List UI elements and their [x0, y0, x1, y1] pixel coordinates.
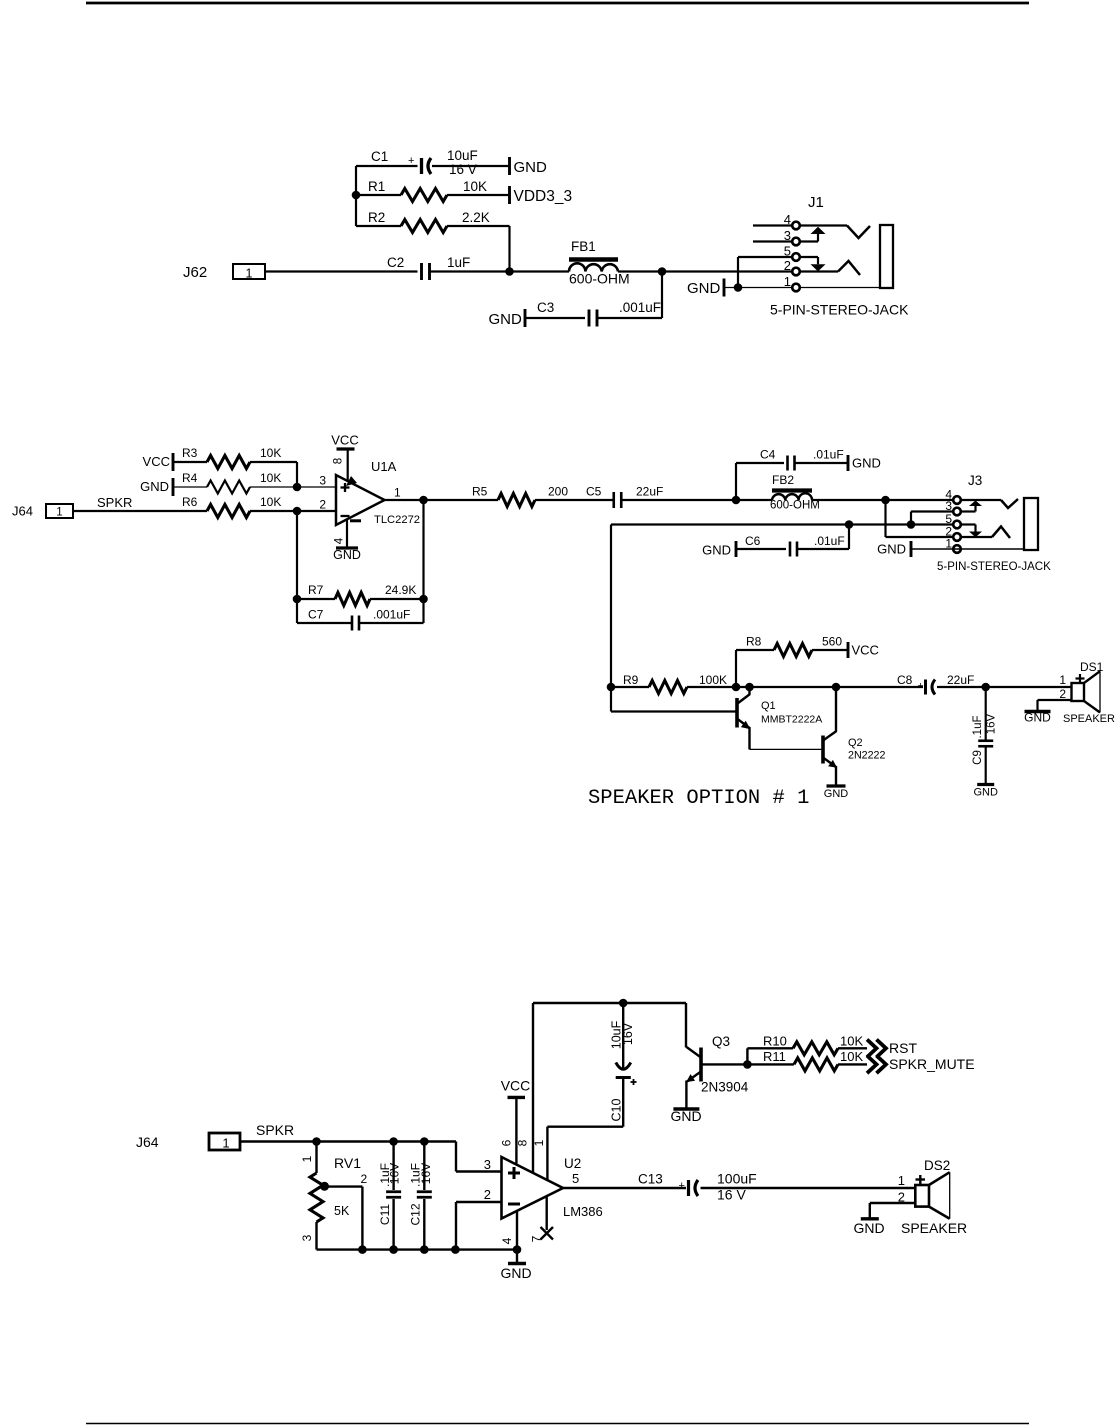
svg-text:C5: C5	[586, 485, 602, 499]
U2 output pin5	[563, 1187, 686, 1189]
svg-text:R7: R7	[308, 583, 324, 597]
svg-text:VCC: VCC	[501, 1078, 531, 1094]
ground GND at C1	[508, 157, 511, 175]
svg-text:C1: C1	[371, 149, 388, 164]
no-connect X on pin7	[541, 1227, 554, 1240]
wire C1 left	[356, 165, 418, 167]
svg-text:560: 560	[822, 635, 842, 649]
wire FB1 to node B	[618, 270, 662, 272]
wire R9 left	[611, 686, 649, 688]
resistor R4	[207, 481, 250, 494]
capacitor C3	[588, 310, 591, 327]
node A junction	[505, 267, 514, 276]
U2 pin4 GND	[516, 1210, 518, 1250]
U2 pin6 VCC	[515, 1097, 517, 1164]
svg-text:GND: GND	[852, 456, 881, 471]
svg-text:5: 5	[572, 1171, 579, 1186]
wire C2 to node A	[430, 270, 510, 272]
svg-text:GND: GND	[853, 1220, 884, 1236]
svg-text:3: 3	[784, 228, 791, 243]
wire to C8	[836, 686, 923, 688]
wire node C to FB2	[736, 499, 772, 501]
wire R9 to base node	[687, 686, 736, 688]
svg-text:200: 200	[548, 485, 568, 499]
wire VCC to R3	[173, 461, 207, 463]
svg-text:C7: C7	[308, 608, 324, 622]
svg-text:6: 6	[500, 1139, 514, 1146]
svg-text:SPEAKER OPTION # 1: SPEAKER OPTION # 1	[588, 787, 809, 810]
speaker DS2 body	[915, 1185, 929, 1207]
wire R11 to SPKR_MUTE	[838, 1063, 867, 1065]
svg-text:LM386: LM386	[563, 1204, 603, 1219]
svg-text:2: 2	[319, 498, 326, 512]
wire GND to R4	[173, 486, 207, 488]
speaker DS1 body	[1072, 683, 1085, 701]
wire J1 pin2 to ring contact	[800, 270, 838, 272]
resistor R7	[335, 593, 370, 606]
U1A pin8 VCC pin	[347, 449, 349, 481]
resistor R5	[498, 494, 535, 507]
svg-text:.01uF: .01uF	[814, 534, 845, 548]
junction R7 left	[293, 595, 302, 604]
svg-text:R3: R3	[182, 446, 198, 460]
resistor R1	[401, 189, 447, 202]
U1A pin4 GND pin	[346, 520, 348, 549]
J1 ring arrow	[817, 257, 819, 264]
U2 pin1	[546, 1127, 548, 1180]
svg-text:VCC: VCC	[331, 433, 358, 448]
svg-text:100uF: 100uF	[717, 1171, 757, 1187]
junction at J1 pin5 ground	[734, 283, 743, 292]
svg-text:1: 1	[394, 486, 401, 500]
svg-text:24.9K: 24.9K	[385, 583, 416, 597]
wire R6 to pin2 node	[250, 510, 297, 512]
wire J3 pin2 to ring contact	[961, 536, 992, 538]
wire J3 tap down	[610, 525, 612, 712]
svg-text:C12: C12	[409, 1203, 423, 1225]
svg-text:TLC2272: TLC2272	[374, 514, 420, 526]
junction pin3 tap	[907, 520, 916, 529]
svg-text:C2: C2	[387, 255, 404, 270]
svg-text:16V: 16V	[419, 1163, 433, 1184]
svg-text:J64: J64	[12, 504, 33, 519]
svg-text:GND: GND	[687, 280, 721, 297]
wire C10 bottom to pin1	[547, 1125, 623, 1127]
svg-text:SPEAKER: SPEAKER	[1063, 713, 1115, 725]
svg-text:VCC: VCC	[143, 454, 170, 469]
svg-text:SPKR: SPKR	[256, 1122, 294, 1138]
svg-text:10K: 10K	[260, 495, 281, 509]
svg-text:C11: C11	[378, 1204, 392, 1225]
transistor Q3	[699, 1048, 703, 1082]
svg-text:C4: C4	[760, 448, 776, 462]
svg-text:R10: R10	[763, 1034, 787, 1049]
svg-text:U2: U2	[564, 1156, 581, 1171]
svg-text:+: +	[918, 680, 924, 692]
svg-text:GND: GND	[973, 787, 998, 799]
U2 pin7	[546, 1197, 548, 1231]
wire J62 to C2	[265, 270, 418, 272]
wire DS2 pin2 to GND	[870, 1202, 916, 1204]
power VCC at R8	[847, 642, 850, 658]
svg-text:VDD3_3: VDD3_3	[514, 188, 573, 205]
wire node C up to C4	[735, 463, 737, 500]
wire output to R5	[424, 499, 499, 501]
svg-text:22uF: 22uF	[947, 673, 974, 687]
svg-text:R11: R11	[763, 1049, 786, 1064]
svg-text:GND: GND	[140, 479, 169, 494]
wire rail left of C1/R1/R2	[355, 166, 357, 226]
svg-text:.1uF: .1uF	[972, 715, 984, 738]
svg-text:1: 1	[56, 507, 62, 519]
junction R8 tap	[732, 683, 741, 692]
wire J1 pin5 stub right	[800, 256, 818, 258]
resistor R8	[774, 644, 812, 657]
wire C10 upper lead	[622, 1003, 624, 1068]
svg-text:600-OHM: 600-OHM	[569, 271, 630, 287]
capacitor C10	[616, 1063, 631, 1070]
junction RV1 wiper bottom	[358, 1245, 367, 1254]
svg-text:GND: GND	[489, 311, 523, 328]
svg-text:.01uF: .01uF	[813, 448, 844, 462]
wire to U2 pin3	[455, 1142, 457, 1172]
wire RV1 top lead	[315, 1142, 317, 1174]
svg-text:2: 2	[484, 1187, 491, 1202]
svg-text:4: 4	[500, 1237, 514, 1244]
connector J64 pin box bottom	[209, 1133, 240, 1150]
resistor R3	[207, 456, 250, 469]
wire stub J1 pin4	[753, 224, 792, 226]
ground GND at DS2	[861, 1217, 879, 1220]
wire R2 to node A	[447, 225, 510, 227]
ferrite bead FB2	[772, 488, 812, 492]
junction C10 top	[619, 999, 628, 1008]
svg-text:R6: R6	[182, 495, 198, 509]
svg-text:R1: R1	[368, 179, 385, 194]
power VDD3_3	[508, 186, 511, 204]
J1 jack body	[880, 225, 893, 288]
speaker DS2 plus	[916, 1178, 926, 1180]
svg-text:GND: GND	[824, 788, 849, 800]
J1 tip contact	[847, 226, 870, 239]
wire R1 to VDD3_3	[447, 194, 510, 196]
wire C8 to node E	[937, 686, 986, 688]
svg-text:2N2222: 2N2222	[848, 750, 885, 762]
svg-text:J62: J62	[183, 264, 207, 281]
wire Q1 base	[611, 710, 737, 712]
svg-text:Q2: Q2	[848, 737, 863, 749]
capacitor C12	[417, 1190, 432, 1193]
wire output down to feedback	[422, 500, 424, 623]
wire RV1 bottom lead	[315, 1222, 317, 1250]
wire speaker tap to J3 pin5	[611, 523, 953, 525]
ground GND at Q2	[827, 784, 846, 787]
ground GND at Q3	[673, 1107, 699, 1110]
wire GND to C3	[525, 317, 585, 319]
svg-text:10K: 10K	[260, 471, 281, 485]
svg-text:10uF: 10uF	[447, 148, 478, 163]
J3 jack body	[1024, 498, 1038, 550]
wire C9 to GND	[985, 747, 987, 785]
svg-text:+: +	[408, 155, 414, 167]
svg-text:GND: GND	[702, 543, 731, 558]
svg-text:600-OHM: 600-OHM	[770, 500, 820, 512]
svg-text:J1: J1	[808, 194, 824, 211]
capacitor C9	[978, 739, 993, 742]
wire pin3 link	[910, 512, 912, 525]
svg-text:GND: GND	[1024, 711, 1051, 725]
svg-text:3: 3	[319, 474, 326, 488]
svg-text:C3: C3	[537, 300, 554, 315]
svg-text:5-PIN-STEREO-JACK: 5-PIN-STEREO-JACK	[770, 302, 909, 318]
svg-text:10K: 10K	[260, 446, 281, 460]
svg-text:22uF: 22uF	[636, 485, 663, 499]
ground GND at C4	[847, 455, 850, 471]
wire C11 lead	[392, 1142, 394, 1191]
resistor R9	[649, 681, 687, 694]
svg-text:DS2: DS2	[924, 1158, 950, 1173]
svg-text:10K: 10K	[463, 179, 487, 194]
svg-text:8: 8	[516, 1139, 530, 1146]
svg-text:2: 2	[361, 1172, 368, 1186]
off-page SPKR_MUTE chevron	[867, 1056, 877, 1074]
wire top rail	[533, 1002, 686, 1004]
wire pin4 stub	[516, 1250, 518, 1264]
resistor R2	[401, 220, 447, 233]
junction R7 right	[419, 595, 428, 604]
wire C12 lead	[423, 1142, 425, 1191]
J1 ring contact	[838, 261, 860, 275]
node E junction	[981, 683, 990, 692]
wire C3 to node B branch	[598, 317, 663, 319]
wire R3 to pin3 node	[250, 461, 297, 463]
wire Q3 collector	[685, 1003, 687, 1048]
capacitor C5	[612, 492, 615, 508]
wire R8 branch	[735, 650, 737, 687]
svg-text:C13: C13	[638, 1172, 663, 1187]
svg-text:16V: 16V	[986, 713, 998, 734]
wire R11 row	[747, 1063, 794, 1065]
svg-text:VCC: VCC	[852, 643, 879, 658]
svg-text:.001uF: .001uF	[619, 300, 661, 315]
wire R7 right	[370, 598, 424, 600]
junction output node	[419, 496, 428, 505]
svg-text:SPKR: SPKR	[97, 495, 132, 510]
svg-text:R9: R9	[623, 673, 639, 687]
connector J62 pin box	[233, 264, 265, 279]
J3 ring contact	[992, 527, 1010, 539]
svg-text:5K: 5K	[334, 1204, 350, 1218]
svg-text:R5: R5	[472, 485, 488, 499]
svg-text:100K: 100K	[699, 673, 727, 687]
wire C9 branch	[985, 687, 987, 740]
svg-text:C8: C8	[897, 673, 913, 687]
svg-text:10K: 10K	[840, 1034, 863, 1049]
svg-text:16 V: 16 V	[449, 162, 477, 177]
capacitor C2	[420, 263, 423, 280]
junction C11 top	[389, 1137, 398, 1146]
wire J3 pin5 stub right	[961, 523, 976, 525]
svg-text:1: 1	[532, 1139, 546, 1146]
op-amp U1A	[336, 475, 385, 525]
capacitor C11	[386, 1190, 401, 1193]
transistor Q1	[735, 698, 739, 728]
wire ground rail	[317, 1248, 518, 1250]
resistor R10	[793, 1042, 838, 1055]
wire J1 pin4 to tip contact	[800, 224, 847, 226]
J3 ring arrow	[974, 525, 976, 532]
wire C6 branch	[848, 525, 850, 550]
wire R7 left	[297, 598, 335, 600]
junction C12 top	[420, 1137, 429, 1146]
capacitor C4	[786, 456, 789, 471]
wire C1 to GND	[432, 165, 510, 167]
U1A output pin1	[385, 499, 424, 501]
wire Q3 base	[701, 1063, 747, 1065]
wire C5 to node C	[622, 499, 736, 501]
RV1 wiper	[320, 1182, 329, 1191]
ground GND at DS1	[1025, 710, 1051, 713]
wire DS1 pin2 to GND	[1038, 699, 1072, 701]
junction Q1 collector	[745, 683, 754, 692]
wire R2 left	[356, 225, 401, 227]
svg-text:1: 1	[300, 1155, 314, 1162]
node D junction	[881, 496, 890, 505]
wire C10 lower lead	[622, 1078, 624, 1127]
wire J3 pin4 to tip contact	[961, 499, 1001, 501]
svg-text:FB2: FB2	[772, 473, 794, 487]
potentiometer RV1	[310, 1173, 323, 1222]
svg-text:GND: GND	[514, 159, 548, 176]
svg-text:GND: GND	[670, 1108, 701, 1124]
svg-text:2N3904: 2N3904	[701, 1080, 749, 1095]
svg-text:5-PIN-STEREO-JACK: 5-PIN-STEREO-JACK	[937, 561, 1051, 573]
capacitor C7	[351, 616, 354, 631]
J3 tip contact	[1001, 499, 1018, 508]
wire R10 branch	[746, 1048, 748, 1064]
wire GND to C6	[736, 548, 786, 550]
wire R4 to node	[250, 486, 297, 488]
svg-text:Q3: Q3	[712, 1034, 730, 1049]
svg-text:1: 1	[784, 274, 791, 289]
svg-text:3: 3	[300, 1234, 314, 1241]
resistor R11	[794, 1058, 838, 1071]
junction pin2 rail	[451, 1245, 460, 1254]
wire node E to DS1	[986, 686, 1072, 688]
junction pin2 node	[293, 507, 302, 516]
svg-text:C9: C9	[972, 750, 984, 765]
svg-text:R2: R2	[368, 210, 385, 225]
wire J3 pin3 stub right	[961, 510, 976, 512]
svg-text:FB1: FB1	[571, 239, 596, 254]
ground GND at U2	[508, 1262, 526, 1265]
wire node D to J3 pin4	[886, 499, 954, 501]
svg-text:SPEAKER: SPEAKER	[901, 1220, 967, 1236]
svg-text:SPKR_MUTE: SPKR_MUTE	[889, 1056, 975, 1072]
node C junction	[732, 496, 741, 505]
wire node B down to C3	[661, 272, 663, 319]
svg-text:GND: GND	[877, 542, 906, 557]
wire node to U1A pin2	[297, 510, 336, 512]
junction C11 bottom	[389, 1245, 398, 1254]
wire R1 left	[356, 194, 401, 196]
svg-text:1: 1	[222, 1136, 229, 1151]
junction base split	[743, 1060, 752, 1069]
svg-text:J64: J64	[136, 1134, 159, 1150]
svg-text:3: 3	[484, 1157, 491, 1172]
wire collector node	[736, 686, 836, 688]
node B junction	[658, 267, 667, 276]
wire J64 to R6	[73, 510, 207, 512]
svg-text:C6: C6	[745, 534, 761, 548]
svg-text:8: 8	[333, 458, 345, 464]
op-amp U2	[502, 1157, 564, 1219]
wire node D down to J3 pin2	[884, 500, 886, 537]
svg-text:GND: GND	[500, 1265, 531, 1281]
svg-text:1: 1	[1059, 673, 1066, 687]
junction C12 bottom	[420, 1245, 429, 1254]
svg-text:1: 1	[898, 1173, 905, 1188]
junction pin4 rail	[513, 1245, 522, 1254]
wire C6 to branch	[798, 548, 850, 550]
svg-text:1uF: 1uF	[447, 255, 470, 270]
wire R5 to C5	[535, 499, 613, 501]
node junction at R1 left	[352, 191, 361, 200]
svg-text:16V: 16V	[621, 1022, 635, 1045]
speaker DS1 plus	[1076, 677, 1085, 679]
connector J64 pin box	[46, 504, 73, 518]
svg-text:C10: C10	[610, 1098, 624, 1121]
svg-text:3: 3	[945, 499, 952, 513]
svg-text:J3: J3	[968, 473, 982, 488]
wire SPKR rail	[241, 1140, 457, 1142]
wire C12 bottom	[423, 1199, 425, 1250]
wire R8 to VCC	[812, 649, 848, 651]
svg-text:+: +	[679, 1180, 685, 1192]
wire node A to FB1	[510, 270, 570, 272]
svg-text:RST: RST	[889, 1040, 917, 1056]
svg-text:2.2K: 2.2K	[462, 210, 490, 225]
svg-text:GND: GND	[333, 548, 361, 562]
transistor Q2	[821, 736, 825, 764]
wire C7 row	[297, 622, 351, 624]
svg-text:5: 5	[784, 244, 791, 259]
resistor R6	[207, 505, 250, 518]
svg-text:4: 4	[334, 537, 346, 544]
wire C7 right	[360, 622, 424, 624]
junction C6 tap	[845, 520, 854, 529]
wire pin2 node down	[296, 511, 298, 623]
J3 tip arrow	[974, 506, 976, 512]
svg-text:2: 2	[784, 258, 791, 273]
svg-text:4: 4	[784, 212, 791, 227]
svg-text:MMBT2222A: MMBT2222A	[761, 714, 822, 726]
U2 pin8	[532, 1003, 534, 1173]
wire C4 to GND	[795, 462, 848, 464]
wire FB2 to node D	[812, 499, 886, 501]
ground GND at C9	[977, 783, 994, 786]
wire GND to J1 pin1	[724, 287, 792, 289]
svg-text:16V: 16V	[388, 1163, 402, 1184]
J1 tip arrow	[817, 234, 819, 242]
svg-text:RV1: RV1	[334, 1155, 361, 1171]
wire node to U1A pin3	[297, 486, 336, 488]
junction R9 tap	[607, 683, 616, 692]
wire stub J1 pin3	[753, 240, 792, 242]
footer rule	[86, 1423, 1029, 1425]
wire node B to J1 pin2	[662, 270, 792, 272]
svg-text:R4: R4	[182, 471, 198, 485]
